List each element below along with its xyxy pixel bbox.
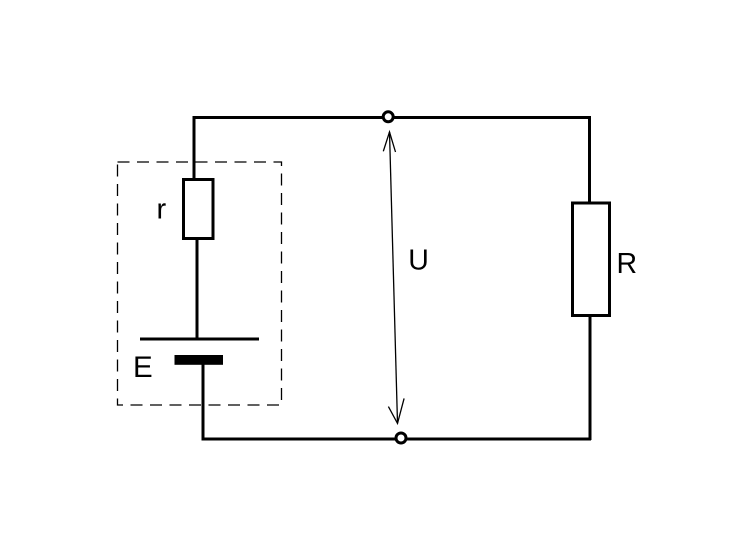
battery E long plate [140, 338, 259, 341]
svg-text:R: R [617, 248, 638, 280]
resistor r (internal resistance) [184, 180, 214, 239]
svg-text:E: E [133, 351, 153, 384]
svg-text:U: U [408, 245, 429, 277]
node: bottom terminal [396, 433, 406, 443]
wire: right vertical upper [588, 116, 591, 204]
voltage source internal dashed box [118, 162, 282, 405]
battery E short thick plate [175, 355, 224, 365]
wire: r to battery plate [196, 238, 199, 340]
wire: bottom rail [203, 438, 591, 441]
wire: top rail [193, 116, 592, 119]
node: top terminal [383, 112, 393, 122]
voltage arrow U shaft [390, 132, 398, 423]
arrowhead top [383, 132, 395, 152]
wire: right vertical lower [589, 315, 592, 440]
arrowhead bottom [388, 398, 404, 423]
wire: battery to bottom rail [202, 363, 205, 441]
svg-text:r: r [157, 194, 167, 226]
resistor R [573, 203, 610, 316]
wire: top-left vertical (source to top rail) [193, 116, 196, 179]
